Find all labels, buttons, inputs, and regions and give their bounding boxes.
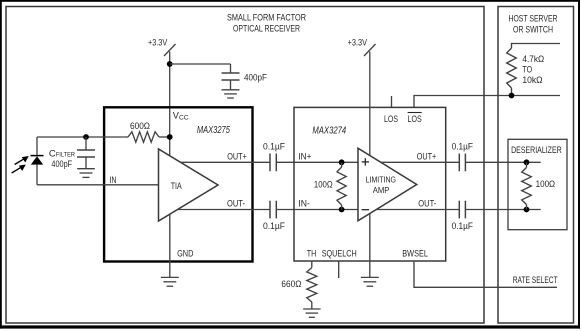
svg-text:IN-: IN- xyxy=(298,198,310,209)
svg-text:IN+: IN+ xyxy=(298,151,311,162)
svg-text:0.1µF: 0.1µF xyxy=(263,221,285,232)
pin LOS stub xyxy=(391,96,393,107)
svg-text:MAX3275: MAX3275 xyxy=(197,125,230,136)
svg-text:GND: GND xyxy=(177,248,193,259)
svg-text:DESERIALIZER: DESERIALIZER xyxy=(511,145,562,156)
capacitor 0.1uF OUT- right xyxy=(458,201,460,219)
GND pin MAX3275 xyxy=(169,214,171,277)
svg-text:SQUELCH: SQUELCH xyxy=(322,248,357,259)
svg-text:400pF: 400pF xyxy=(51,159,72,170)
deserializer box xyxy=(508,139,567,229)
resistor 600ohm xyxy=(128,132,159,142)
wire OUT- row left xyxy=(178,209,271,211)
node: pullup junction xyxy=(509,93,515,99)
wire filter row xyxy=(37,136,128,138)
svg-text:+3.3V: +3.3V xyxy=(148,37,168,48)
svg-text:OUT-: OUT- xyxy=(227,198,245,209)
svg-text:TO: TO xyxy=(522,65,532,76)
GND pin MAX3274 xyxy=(369,214,371,278)
svg-text:10kΩ: 10kΩ xyxy=(522,75,542,86)
svg-text:0.1µF: 0.1µF xyxy=(263,141,285,152)
capacitor CFILTER 400pF xyxy=(85,137,87,150)
svg-text:4.7kΩ: 4.7kΩ xyxy=(522,54,544,65)
wire OUT+ row right xyxy=(381,161,460,163)
svg-text:TH: TH xyxy=(307,248,317,259)
svg-text:400pF: 400pF xyxy=(244,72,267,83)
svg-text:MAX3274: MAX3274 xyxy=(312,125,346,136)
capacitor 0.1uF OUT- left xyxy=(269,201,271,219)
resistor 660ohm TH xyxy=(311,261,313,268)
host server box xyxy=(498,7,574,324)
svg-text:OPTICAL RECEIVER: OPTICAL RECEIVER xyxy=(233,23,300,34)
svg-text:0.1µF: 0.1µF xyxy=(452,221,474,232)
light arrows xyxy=(15,159,25,165)
ground (660ohm) xyxy=(303,309,321,317)
ground (MAX3275) xyxy=(161,277,179,286)
resistor 100ohm termination xyxy=(526,162,528,167)
svg-text:AMP: AMP xyxy=(373,185,390,195)
resistor 100ohm input xyxy=(341,162,343,167)
capacitor 0.1uF OUT+ left xyxy=(269,154,271,172)
svg-text:LOS: LOS xyxy=(384,114,398,125)
svg-text:LOS: LOS xyxy=(408,114,422,125)
pin SQUELCH stub xyxy=(338,261,340,278)
ground (bypass cap) xyxy=(222,90,240,98)
wire OUT- row right xyxy=(376,209,459,211)
node: filter junction xyxy=(83,134,89,140)
svg-text:OUT+: OUT+ xyxy=(227,151,247,162)
node: vcc junction xyxy=(167,134,173,140)
node: IN- junction xyxy=(339,207,345,213)
svg-text:HOST SERVER: HOST SERVER xyxy=(509,14,558,25)
small form factor module box xyxy=(6,7,484,324)
svg-text:100Ω: 100Ω xyxy=(536,179,556,190)
svg-text:OUT-: OUT- xyxy=(418,198,436,209)
resistor pullup 4.7k-10k xyxy=(512,44,561,49)
pin BWSEL wire RATE SELECT xyxy=(414,261,557,288)
capacitor 400pF bypass xyxy=(230,64,232,73)
svg-text:BWSEL: BWSEL xyxy=(402,248,428,259)
node: deser IN- xyxy=(524,207,530,213)
svg-text:660Ω: 660Ω xyxy=(281,279,301,290)
node: IN+ junction xyxy=(339,159,345,165)
svg-text:OUT+: OUT+ xyxy=(417,151,437,162)
wire IN xyxy=(37,184,159,186)
border frame xyxy=(0,0,580,2)
op-amp TIA xyxy=(159,149,219,221)
photodiode D1 xyxy=(36,137,38,156)
capacitor 0.1uF OUT+ right xyxy=(458,154,460,172)
wire to bypass cap xyxy=(170,63,231,65)
ground (MAX3274) xyxy=(361,277,379,286)
ground (CFILTER) xyxy=(77,169,95,178)
IC MAX3274 box xyxy=(294,107,446,261)
svg-text:OR SWITCH: OR SWITCH xyxy=(513,25,553,36)
svg-text:100Ω: 100Ω xyxy=(314,179,333,190)
wire OUT+ row left xyxy=(181,161,271,163)
node: deser IN+ xyxy=(524,159,530,165)
pin LOSB wire to host xyxy=(414,96,560,108)
svg-text:+3.3V: +3.3V xyxy=(348,37,368,48)
svg-text:TIA: TIA xyxy=(171,181,182,192)
svg-text:RATE SELECT: RATE SELECT xyxy=(513,275,558,286)
svg-text:SMALL FORM FACTOR: SMALL FORM FACTOR xyxy=(227,13,306,24)
svg-text:LIMITING: LIMITING xyxy=(366,175,396,185)
svg-text:600Ω: 600Ω xyxy=(130,121,150,132)
IC MAX3275 box xyxy=(104,107,252,261)
node: supply junction xyxy=(167,61,173,67)
svg-text:IN: IN xyxy=(109,175,116,186)
op-amp LIMITING AMP xyxy=(358,148,417,221)
svg-text:0.1µF: 0.1µF xyxy=(452,141,474,152)
